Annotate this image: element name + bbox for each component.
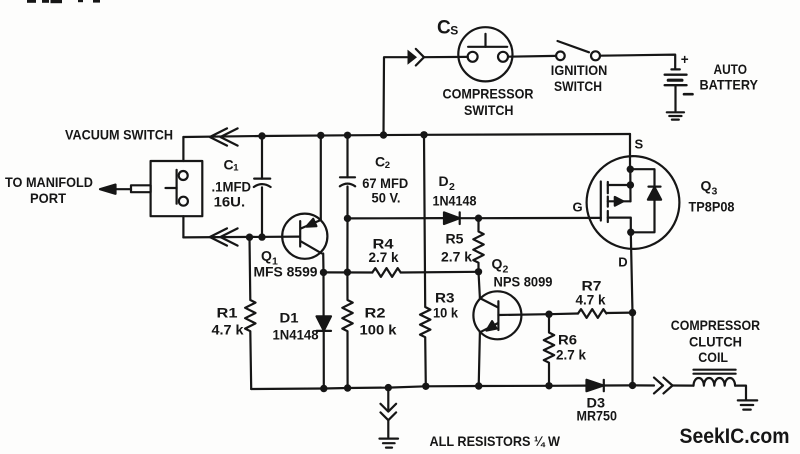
wire chevron to switch — [424, 56, 468, 58]
svg-text:1N4148: 1N4148 — [433, 192, 477, 208]
label VACUUM SWITCH — [65, 126, 173, 142]
label C2 — [362, 154, 408, 206]
svg-text:100 k: 100 k — [360, 322, 397, 338]
wire vacuum switch top lead — [182, 137, 184, 161]
svg-text:C: C — [375, 154, 385, 170]
wire rail to coil — [633, 384, 655, 386]
label R6 — [556, 331, 586, 362]
svg-text:S: S — [450, 23, 458, 37]
label G — [573, 200, 583, 215]
svg-text:G: G — [573, 200, 583, 215]
svg-text:2.7 k: 2.7 k — [556, 346, 586, 362]
svg-text:ALL RESISTORS ¼ W: ALL RESISTORS ¼ W — [430, 433, 561, 449]
ignition switch — [556, 41, 600, 60]
wire Q2 collector up — [479, 272, 480, 298]
label D3 MR750 — [577, 395, 618, 424]
svg-text:16U.: 16U. — [214, 193, 246, 209]
label Q2 NPS 8099 — [492, 256, 553, 290]
wire vacuum switch bottom lead — [182, 216, 184, 237]
wire ignition to battery — [600, 55, 675, 70]
svg-text:SeekIC.com: SeekIC.com — [680, 424, 790, 448]
diode D3 — [587, 380, 633, 391]
svg-text:67 MFD: 67 MFD — [362, 175, 408, 191]
label Q1 MFS 8599 — [254, 248, 318, 280]
label R5 — [441, 230, 472, 264]
diode D2 — [348, 212, 479, 224]
manifold port arrow — [100, 185, 151, 194]
svg-text:4.7 k: 4.7 k — [212, 322, 244, 338]
wire R4 to R5 node — [401, 271, 479, 274]
svg-text:2.7 k: 2.7 k — [369, 249, 399, 265]
vacuum switch body — [151, 161, 203, 216]
svg-text:3: 3 — [712, 186, 718, 198]
resistor R4 — [372, 268, 400, 277]
svg-text:R6: R6 — [558, 331, 577, 347]
svg-text:1N4148: 1N4148 — [273, 327, 319, 343]
wire ground branch — [387, 388, 389, 411]
svg-text:SWITCH: SWITCH — [464, 102, 514, 118]
wire Q1 collector down — [322, 254, 324, 273]
wire Q2 emitter down — [479, 332, 480, 386]
label COMPRESSOR SWITCH — [443, 86, 534, 118]
mosfet Q3 — [587, 156, 680, 249]
svg-text:CLUTCH: CLUTCH — [689, 333, 742, 349]
label R2 — [360, 305, 397, 338]
svg-text:TO MANIFOLD: TO MANIFOLD — [5, 174, 93, 190]
svg-text:PORT: PORT — [30, 190, 66, 206]
capacitor C2 — [340, 135, 355, 218]
wire chevron to ground — [387, 420, 389, 437]
svg-text:2.7 k: 2.7 k — [441, 248, 472, 264]
connector chevron bottom-left — [210, 228, 238, 245]
connector chevron coil — [654, 378, 673, 394]
svg-text:IGNITION: IGNITION — [551, 62, 608, 78]
battery — [665, 69, 687, 111]
resistor R1 — [245, 237, 255, 389]
diode D1 — [317, 272, 332, 388]
watermark SeekIC.com — [680, 424, 790, 448]
minus sign — [684, 93, 693, 96]
wire R4 rail — [324, 271, 373, 273]
capacitor C1 — [254, 136, 271, 237]
label D — [618, 254, 627, 269]
wire compressor switch riser — [384, 57, 408, 135]
wire Q1 emitter to top rail — [320, 135, 322, 220]
connector chevron ground — [381, 404, 397, 420]
resistor R2 — [342, 272, 352, 388]
label S — [635, 137, 644, 152]
svg-text:SWITCH: SWITCH — [554, 78, 602, 94]
transistor Q2 — [473, 291, 521, 339]
svg-text:S: S — [635, 137, 644, 152]
label Q3 TP8P08 — [689, 178, 735, 215]
cropped figure caption remnant — [27, 0, 100, 3]
svg-text:BATTERY: BATTERY — [700, 77, 759, 93]
svg-text:50 V.: 50 V. — [372, 190, 401, 206]
wire chevron to coil — [673, 384, 694, 386]
label plus — [681, 52, 689, 67]
wire bottom rail — [251, 386, 586, 389]
svg-text:2: 2 — [449, 181, 455, 193]
label R7 — [576, 278, 606, 308]
svg-text:10 k: 10 k — [433, 305, 458, 321]
resistor R6 — [544, 314, 554, 386]
label C1 — [212, 156, 252, 209]
inductor compressor clutch coil — [694, 370, 736, 386]
svg-text:VACUUM SWITCH: VACUUM SWITCH — [65, 126, 173, 142]
svg-text:Q: Q — [261, 248, 272, 264]
label D2 — [433, 173, 477, 208]
svg-text:AUTO: AUTO — [714, 61, 748, 77]
resistor R3 — [420, 135, 430, 386]
wire Q1 base rail — [183, 236, 300, 239]
label TO MANIFOLD PORT — [5, 174, 93, 206]
svg-text:+: + — [681, 52, 689, 67]
svg-text:D1: D1 — [280, 310, 299, 326]
label COMPRESSOR CLUTCH COIL — [671, 317, 760, 365]
svg-text:MR750: MR750 — [577, 408, 618, 424]
wire gate lead — [479, 217, 601, 220]
label ALL RESISTORS — [430, 433, 561, 449]
wire top rail — [183, 134, 630, 137]
connector chevron compressor — [408, 49, 425, 66]
svg-text:2: 2 — [385, 160, 390, 171]
wire coil to ground — [735, 386, 746, 400]
svg-text:.1MFD: .1MFD — [212, 178, 252, 194]
label Cs — [437, 18, 458, 39]
svg-text:COMPRESSOR: COMPRESSOR — [443, 86, 534, 102]
wire Q3 source lead — [629, 134, 631, 169]
svg-text:C: C — [224, 156, 234, 172]
svg-text:D: D — [439, 173, 449, 189]
svg-text:TP8P08: TP8P08 — [689, 199, 735, 215]
svg-text:COMPRESSOR: COMPRESSOR — [671, 317, 760, 333]
label R3 — [433, 290, 458, 321]
svg-text:COIL: COIL — [698, 349, 728, 365]
svg-text:Q: Q — [701, 178, 712, 194]
Q3 internals — [601, 169, 661, 232]
label R1 — [212, 305, 244, 338]
label D1 — [273, 310, 319, 343]
wire C2 node down to R4 rail — [346, 218, 348, 272]
resistor R5 — [473, 218, 483, 272]
resistor R7 — [549, 309, 633, 318]
compressor switch Cs — [458, 27, 512, 81]
svg-text:MFS 8599: MFS 8599 — [254, 264, 318, 280]
svg-text:C: C — [437, 18, 451, 39]
svg-text:R2: R2 — [365, 305, 386, 321]
svg-text:R3: R3 — [435, 290, 455, 306]
svg-text:4.7 k: 4.7 k — [576, 292, 606, 308]
wire Q2 base lead — [498, 313, 549, 316]
connector chevron top-left — [210, 128, 238, 145]
transistor Q1 — [282, 214, 327, 259]
svg-text:1: 1 — [233, 162, 239, 173]
svg-text:D: D — [618, 254, 627, 269]
wire Q3 drain down — [631, 232, 633, 385]
svg-text:Q: Q — [492, 256, 503, 272]
label R4 — [369, 235, 399, 265]
wire switch to ignition — [508, 55, 556, 58]
svg-text:R1: R1 — [217, 305, 238, 321]
label AUTO BATTERY — [700, 61, 759, 93]
ground coil — [738, 400, 757, 409]
svg-text:R5: R5 — [446, 230, 464, 246]
ground battery — [667, 112, 684, 119]
ground center — [380, 439, 399, 448]
svg-text:NPS 8099: NPS 8099 — [494, 273, 553, 289]
label IGNITION SWITCH — [551, 62, 608, 94]
